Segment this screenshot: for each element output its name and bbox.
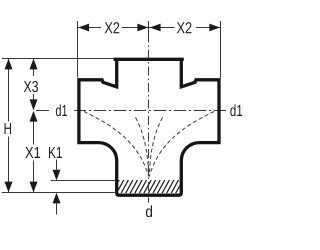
wire right extension line [220,21,222,78]
wire X1 dimension line [33,118,35,145]
wire bowtie to d1 connector [36,110,49,112]
label H [5,123,12,134]
label X3 [24,81,38,92]
arrow X3 bottom [30,99,38,110]
arrow K1 bottom [53,193,61,204]
arrow X1 bottom [30,182,38,193]
arrow H bottom [5,182,13,193]
wire left extension line [77,21,79,78]
wire H dimension line [8,59,10,122]
label X2 left [105,22,120,33]
arrow X3 top [30,59,38,70]
wire top reference extension line [2,58,115,60]
wire K1 arrow tails [56,160,58,170]
wire X3 dimension line [33,59,35,76]
wire K1 upper reference line [51,180,115,182]
node socket hatch band [112,180,188,193]
wire dashed internal flow curve inner-right [149,118,162,177]
arrow H top [5,59,13,70]
arrow X2 center-right [150,24,161,32]
node horizontal dash-dot centerline d1 [74,110,226,112]
wire center extension line [148,21,150,34]
wire dashed internal flow curve outer-right [149,112,214,177]
wire dashed internal flow curve inner-left [136,118,149,177]
arrow X2 left [78,24,89,32]
label d [146,205,152,217]
label X2 right [177,22,192,33]
arrow X1 top [30,111,38,122]
arrow X2 center-left [137,24,148,32]
label X1 [25,147,40,158]
label d1 right [230,104,242,116]
wire dashed internal flow curve outer-left [84,112,149,177]
arrow K1 top [53,170,61,181]
wire bottom reference extension line [2,192,115,194]
node spigot top edge [114,58,184,61]
label d1 left [56,104,67,116]
wire X2 dimension line segments [78,27,102,29]
node fitting body outline [79,58,219,195]
arrow X2 right [209,24,220,32]
label K1 [49,147,62,158]
node vertical dash-dot centerline [148,198,150,203]
